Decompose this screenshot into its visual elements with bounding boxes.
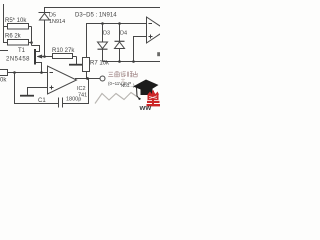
- svg-text:R10 27k: R10 27k: [52, 48, 75, 54]
- wire drain path: [32, 46, 40, 52]
- svg-text:ww: ww: [139, 103, 152, 110]
- capacitor C1: [59, 98, 63, 108]
- node D4 bottom: [118, 60, 121, 63]
- ground for R10: [69, 64, 83, 66]
- watermark zigzag: [95, 93, 138, 104]
- watermark red emblem detail: [149, 96, 157, 99]
- svg-text:1800p: 1800p: [66, 97, 81, 103]
- terminal output circle: [100, 76, 105, 81]
- wire gate to R10: [40, 56, 53, 58]
- wire source path: [36, 63, 42, 73]
- svg-text:0k: 0k: [0, 78, 7, 84]
- label plus of U1: [149, 35, 153, 39]
- wire D3 bottom corner: [102, 60, 104, 63]
- wire U2 plus input: [28, 88, 48, 96]
- diode D5: [39, 13, 51, 57]
- node output junction: [86, 77, 89, 80]
- wire U2 output: [75, 78, 100, 80]
- wire U1 plus input: [134, 37, 147, 62]
- label plus of U2: [50, 86, 54, 90]
- wire upper rail to inverting input of U1: [87, 24, 147, 58]
- svg-text:D5: D5: [49, 13, 56, 19]
- label minus of U1: [149, 23, 153, 25]
- ground for U2 plus: [20, 95, 34, 97]
- resistor R6: [4, 40, 32, 46]
- diode D4: [115, 24, 125, 62]
- watermark faint bracket: [157, 52, 160, 56]
- watermark red emblem: [147, 91, 161, 107]
- svg-text:D3: D3: [103, 31, 110, 37]
- watermark faint vertical marks: [121, 72, 125, 83]
- node D4 top: [118, 22, 121, 25]
- resistor R5: [4, 24, 32, 30]
- svg-text:1N914: 1N914: [49, 19, 65, 25]
- label output name (triangle wave out): [108, 71, 137, 77]
- resistor R input at left edge: [0, 70, 8, 76]
- transistor T1 channel bar: [34, 49, 36, 65]
- svg-text:N01...): N01...): [121, 83, 135, 88]
- resistor R7: [83, 58, 90, 79]
- wire C1 feedback right: [63, 79, 89, 104]
- wire inverting input of U2: [8, 72, 48, 74]
- svg-text:C1: C1: [38, 98, 46, 104]
- svg-text:R6 2k: R6 2k: [5, 34, 22, 40]
- op-amp U2 IC2 741: [48, 66, 77, 94]
- watermark tassel: [137, 87, 140, 99]
- svg-text:D4: D4: [120, 31, 127, 37]
- svg-text:R5* 10k: R5* 10k: [5, 18, 27, 24]
- op-amp U1: [147, 17, 167, 43]
- node R6 junction: [30, 41, 33, 44]
- svg-text:T1: T1: [18, 48, 26, 54]
- label minus of U2: [50, 72, 54, 74]
- svg-text:IC2: IC2: [77, 86, 86, 92]
- svg-text:R7 10k: R7 10k: [90, 61, 110, 67]
- watermark cap base: [141, 89, 153, 96]
- node gate junction: [43, 55, 46, 58]
- svg-text:D3~D5 : 1N914: D3~D5 : 1N914: [75, 13, 117, 19]
- wire left stub: [0, 50, 8, 52]
- wire diode bottom rail: [103, 61, 161, 63]
- node source junction: [40, 71, 43, 74]
- diode D3: [98, 24, 108, 62]
- watermark cap board: [133, 80, 159, 93]
- transistor T1 gate arrow: [37, 55, 42, 58]
- wire left bus vertical: [3, 4, 5, 43]
- node U1 plus junction: [132, 60, 135, 63]
- node feedback tap: [13, 71, 16, 74]
- node D3 top: [101, 22, 104, 25]
- resistor R10: [53, 54, 77, 65]
- svg-text:2N5458: 2N5458: [6, 57, 30, 63]
- wire R5/R6 junction vertical: [31, 27, 33, 46]
- wire C1 feedback left: [15, 73, 59, 104]
- wire top feedback rail: [45, 8, 161, 13]
